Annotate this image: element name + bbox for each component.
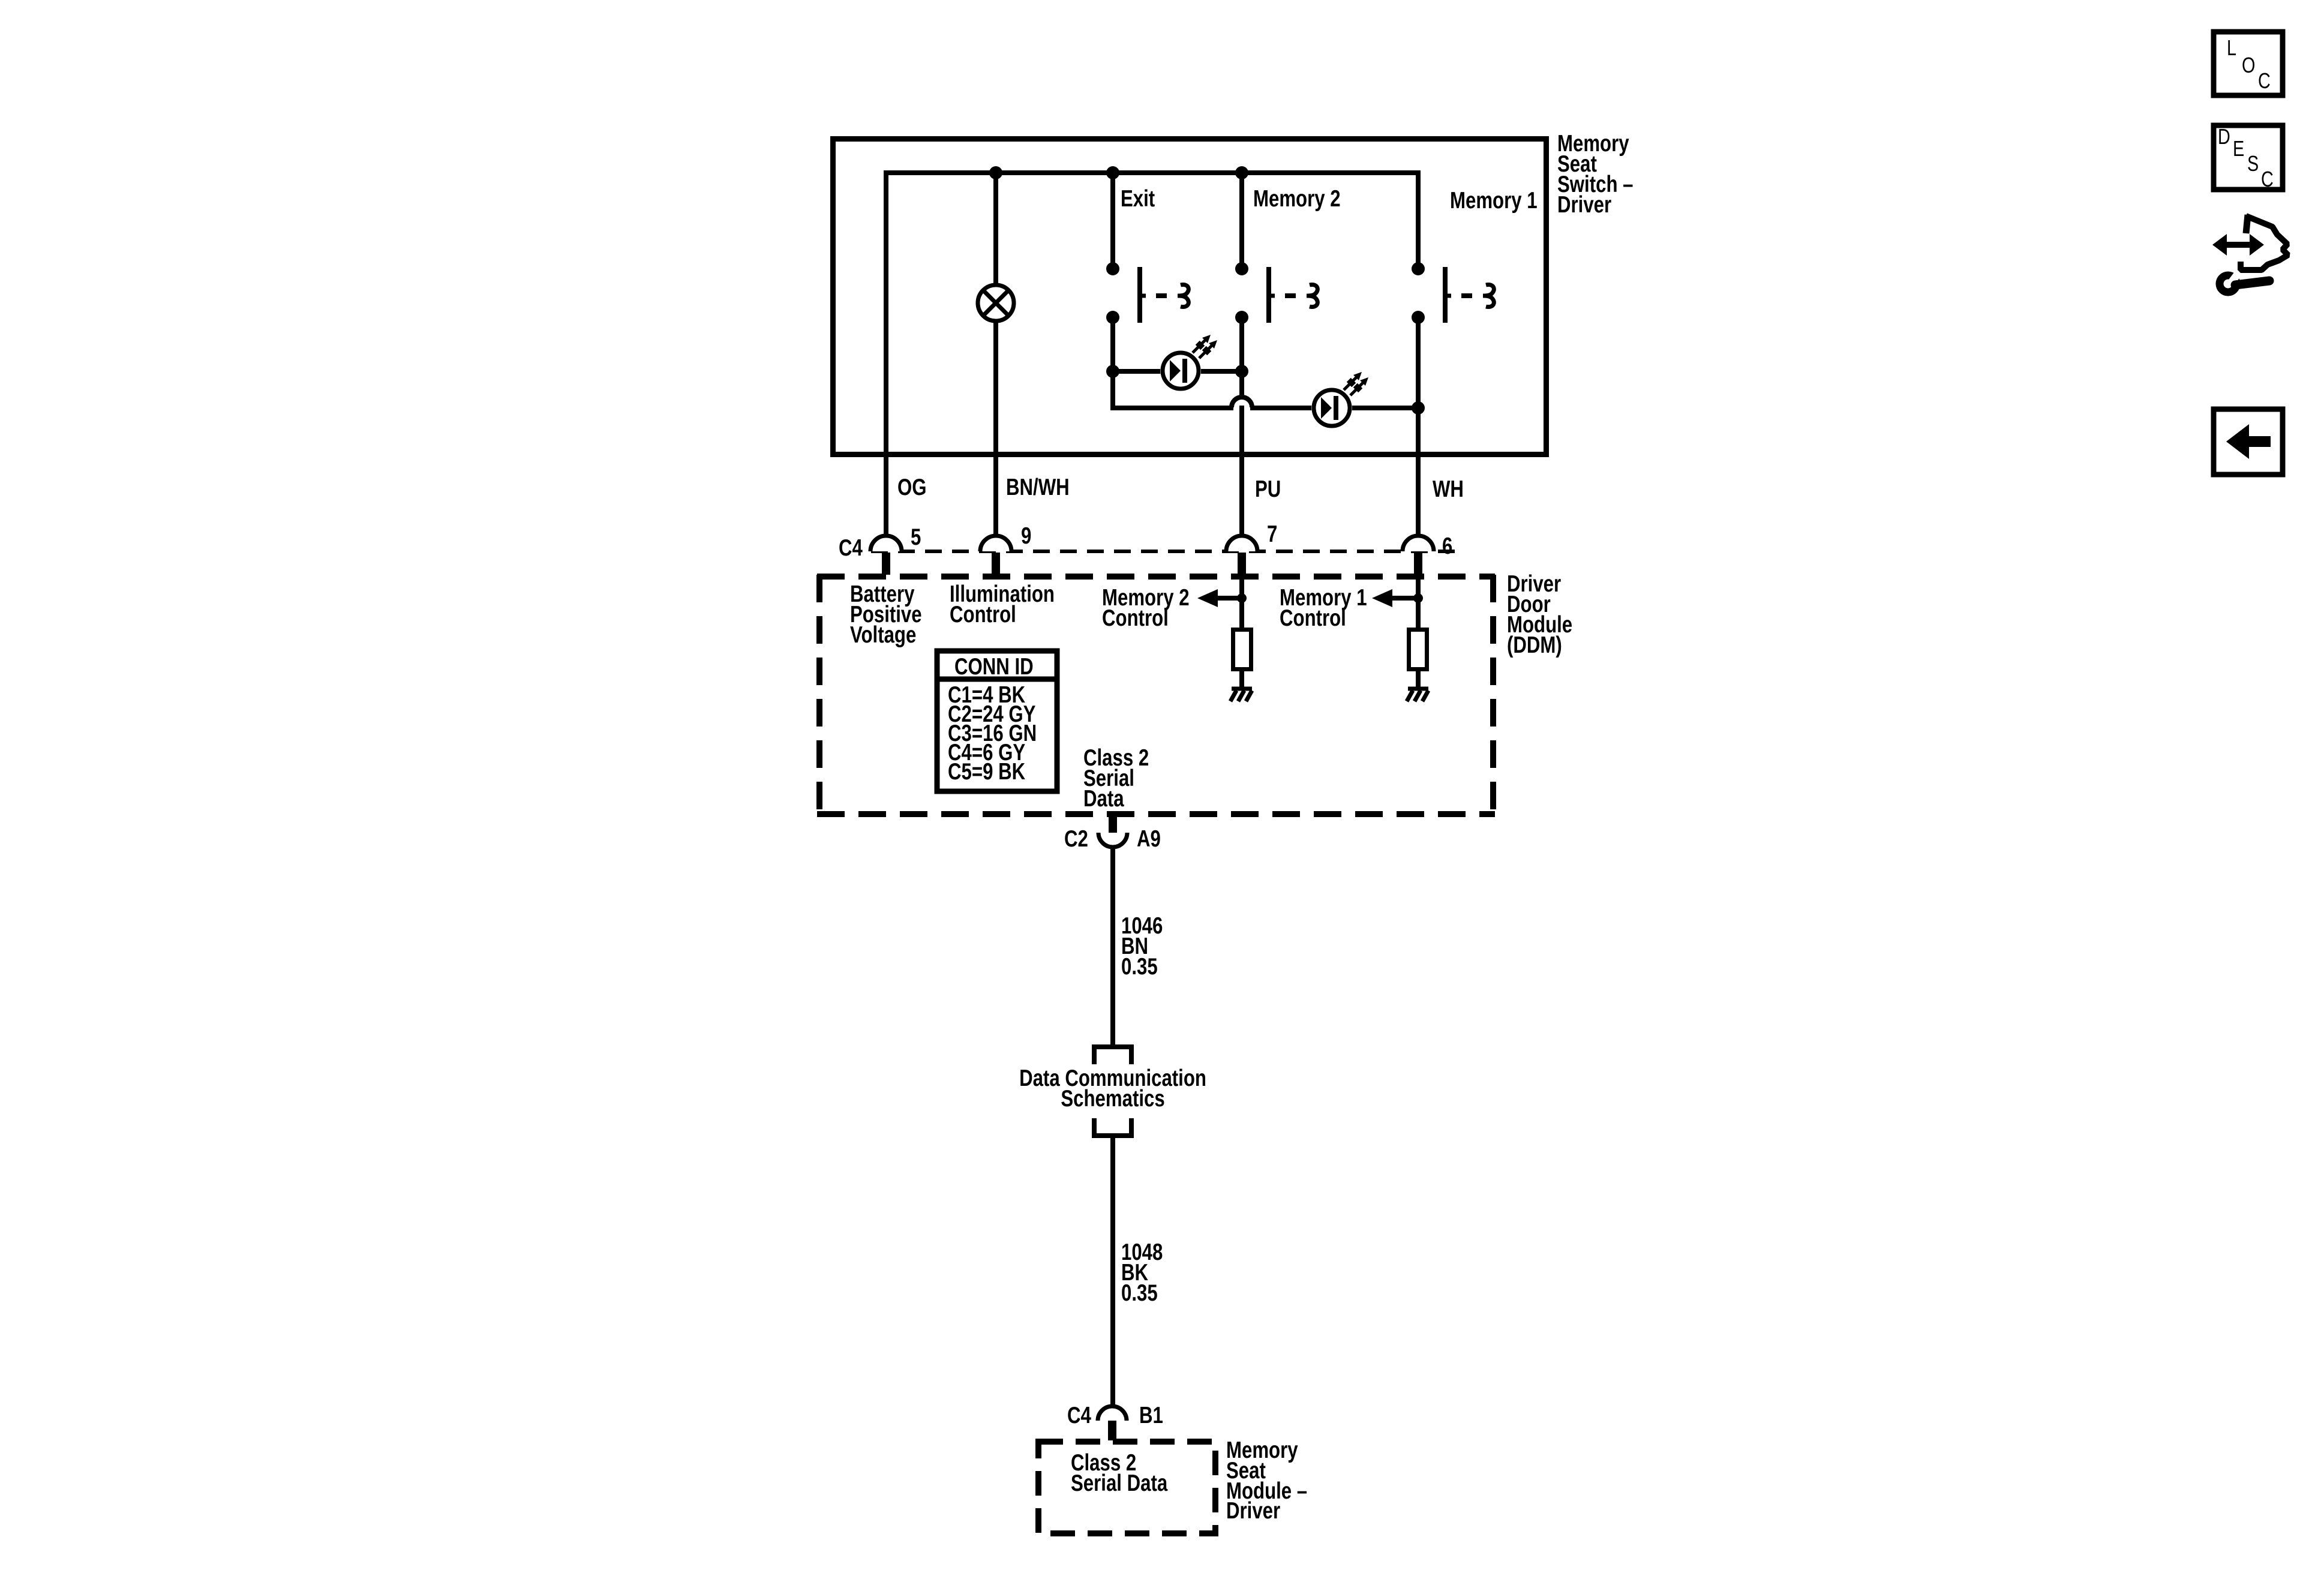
ground (memory 1) <box>1407 689 1428 701</box>
icon: service information (arrow, profile, wrench) <box>2212 215 2288 292</box>
svg-text:C: C <box>2261 167 2274 191</box>
wire: Memory 2 branch upper <box>1239 173 1244 270</box>
svg-text:6: 6 <box>1442 533 1452 559</box>
ground (memory 2) <box>1230 689 1252 701</box>
connector C2 pin A9 <box>1064 811 1161 852</box>
wire: Memory 2 lower branch down to pin 7 <box>1239 317 1244 542</box>
icon: back arrow button <box>2214 409 2283 475</box>
label Class 2 Serial Data (DDM) <box>1083 745 1149 812</box>
wire: PU branch inside DDM <box>1239 574 1244 629</box>
arrow: Memory 1 control output <box>1372 589 1423 607</box>
svg-text:7: 7 <box>1267 521 1277 547</box>
node: junction Memory1/lower row <box>1412 401 1425 415</box>
wire BN/WH vertical (illumination) <box>993 173 998 542</box>
icon: LOC button <box>2214 32 2283 95</box>
label Memory 2 <box>1253 186 1341 212</box>
resistor R (memory 1) <box>1409 630 1427 670</box>
svg-text:(DDM): (DDM) <box>1507 632 1562 658</box>
node: bus junction at Exit wire <box>1106 166 1119 179</box>
svg-text:C2: C2 <box>1064 826 1088 852</box>
wire: Exit branch upper <box>1110 173 1115 270</box>
switch: Memory 2 pushbutton <box>1235 262 1317 324</box>
connector C4 pin 5 <box>870 524 921 575</box>
switch: Exit pushbutton <box>1106 262 1188 324</box>
wire OG vertical (battery feed) <box>884 170 888 542</box>
label Memory 1 <box>1450 188 1538 214</box>
Memory Seat Switch - Driver box <box>833 139 1547 455</box>
node: bus junction at lamp wire <box>989 166 1002 179</box>
wire: lower horizontal with hop <box>1113 395 1418 408</box>
label PU <box>1255 476 1281 502</box>
svg-text:BN/WH: BN/WH <box>1006 475 1070 500</box>
svg-text:Control: Control <box>1102 605 1169 631</box>
label Exit <box>1121 186 1155 212</box>
label Class 2 Serial Data (module) <box>1071 1450 1168 1496</box>
label Memory Seat Module - Driver <box>1226 1437 1307 1524</box>
wire: resistor to ground (memory 2) <box>1239 669 1244 689</box>
label Memory 2 Control <box>1102 585 1190 631</box>
label C4 (connector) <box>839 535 863 561</box>
label Memory Seat Switch - Driver <box>1557 131 1633 218</box>
wire: Memory 1 branch upper <box>1416 170 1421 270</box>
wire: resistor to ground (memory 1) <box>1416 669 1421 689</box>
svg-text:A9: A9 <box>1137 826 1161 852</box>
label BN/WH <box>1006 475 1070 500</box>
svg-text:Driver: Driver <box>1226 1498 1280 1524</box>
label Illumination Control <box>950 581 1055 628</box>
svg-text:Control: Control <box>1280 605 1346 631</box>
LED indicator 2 <box>1311 372 1368 428</box>
svg-text:C4: C4 <box>839 535 863 561</box>
svg-text:L: L <box>2227 35 2236 60</box>
svg-text:D: D <box>2218 124 2230 149</box>
connector C4 pin 7 <box>1226 521 1277 575</box>
svg-text:PU: PU <box>1255 476 1281 502</box>
CONN ID table <box>937 651 1057 791</box>
connector row dashed line <box>871 550 1460 553</box>
svg-text:0.35: 0.35 <box>1121 1280 1158 1306</box>
label Battery Positive Voltage <box>850 581 922 648</box>
svg-text:CONN ID: CONN ID <box>954 654 1034 680</box>
connector C4 pin 9 <box>980 523 1031 575</box>
label Driver Door Module (DDM) <box>1507 571 1572 658</box>
node: junction Memory2/LED1 <box>1235 365 1248 378</box>
svg-text:C5=9 BK: C5=9 BK <box>948 759 1026 785</box>
svg-text:Exit: Exit <box>1121 186 1155 212</box>
connector C4 pin 6 <box>1403 533 1452 575</box>
lamp: illumination bulb <box>978 285 1014 321</box>
wire: LED 1 row horizontal <box>1113 369 1242 374</box>
label OG <box>897 475 927 500</box>
resistor R (memory 2) <box>1233 630 1251 670</box>
connector C4 pin B1 <box>1067 1403 1163 1440</box>
svg-text:E: E <box>2233 136 2244 161</box>
wire: Memory 1 lower branch down to pin 6 <box>1416 317 1421 542</box>
svg-text:C: C <box>2258 68 2271 93</box>
node: junction Exit/LED1 <box>1106 365 1119 378</box>
svg-text:B1: B1 <box>1139 1403 1163 1428</box>
svg-text:9: 9 <box>1021 523 1031 549</box>
off-page reference: Data Communication Schematics <box>1019 1047 1206 1136</box>
label Memory 1 Control <box>1280 585 1367 631</box>
svg-text:WH: WH <box>1433 476 1464 502</box>
Driver Door Module dashed box <box>817 575 1495 816</box>
svg-text:Voltage: Voltage <box>850 622 916 648</box>
svg-text:Serial Data: Serial Data <box>1071 1470 1168 1496</box>
svg-text:O: O <box>2242 53 2255 77</box>
svg-text:Control: Control <box>950 602 1016 628</box>
svg-text:C4: C4 <box>1067 1403 1091 1428</box>
svg-text:S: S <box>2247 151 2259 176</box>
wire 1046 BN 0.35 <box>1113 846 1163 1047</box>
svg-text:OG: OG <box>897 475 927 500</box>
Memory Seat Module dashed box <box>1038 1442 1215 1533</box>
svg-text:Data: Data <box>1083 786 1124 812</box>
label WH <box>1433 476 1464 502</box>
icon: DESC button <box>2214 124 2283 191</box>
node: bus junction at Memory 2 wire <box>1235 166 1248 179</box>
svg-text:Schematics: Schematics <box>1061 1086 1164 1112</box>
svg-text:Memory 1: Memory 1 <box>1450 188 1538 214</box>
wire: feed bus <box>886 170 1421 175</box>
LED indicator 1 <box>1160 335 1217 391</box>
svg-text:5: 5 <box>911 524 921 550</box>
wire: Exit lower branch <box>1110 317 1115 410</box>
svg-text:Driver: Driver <box>1557 192 1611 218</box>
svg-text:0.35: 0.35 <box>1121 954 1158 980</box>
arrow: Memory 2 control output <box>1197 589 1247 607</box>
wire 1048 BK 0.35 <box>1113 1136 1163 1407</box>
wire: WH branch inside DDM <box>1416 574 1421 629</box>
switch: Memory 1 pushbutton <box>1412 262 1494 324</box>
svg-text:Memory 2: Memory 2 <box>1253 186 1341 212</box>
